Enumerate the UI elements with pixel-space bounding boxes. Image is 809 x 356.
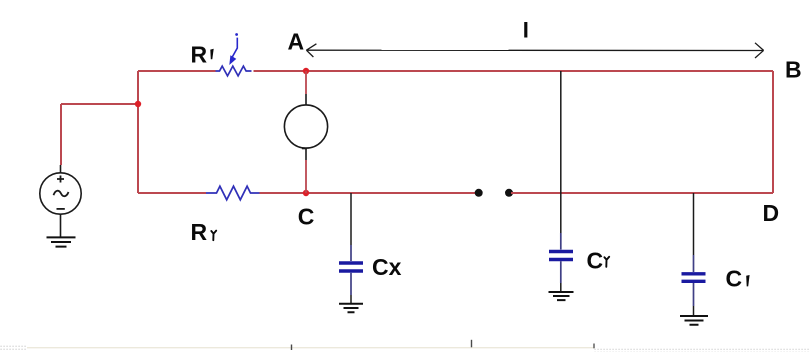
svg-text:A: A (288, 28, 305, 54)
wire bottom middle segment (red) (260, 192, 477, 194)
svg-text:D: D (763, 200, 780, 226)
svg-text:Cx: Cx (372, 254, 402, 280)
capacitor Cx (339, 263, 363, 271)
wire galvanometer bottom (black then red) (302, 147, 307, 149)
wire C1 lower stem (blue then black) (693, 283, 695, 306)
bottom edge speckle patch left (0, 344, 27, 350)
wire galvanometer top (red then black) (305, 71, 307, 94)
junction dot (slide contact left) (475, 189, 483, 197)
wire top right segment (red) (254, 70, 774, 72)
svg-text:C: C (587, 247, 604, 273)
svg-text:B: B (785, 57, 802, 83)
wire Cx upper stem (blue) (350, 245, 352, 261)
wire source feed horizontal (red) (61, 103, 138, 105)
node C dot (303, 190, 309, 196)
bottom edge tick 3 (593, 344, 595, 349)
svg-text:R: R (191, 42, 208, 68)
bottom edge tick 2 (471, 340, 473, 348)
resistor R2 (blue zigzag) (206, 186, 260, 200)
ground (C2) (549, 292, 574, 300)
resistor R1 (variable, blue zigzag) (216, 66, 252, 76)
wire C2 branch vertical (black, from top wire through bottom wire) (560, 71, 562, 233)
wire Cx branch (black) (350, 193, 352, 245)
R1 wiper arrow (blue j-arrow) (229, 33, 238, 65)
bottom edge ruler line (20, 347, 594, 349)
wire bottom right segment (red) (511, 192, 773, 194)
ground (source) (47, 237, 76, 246)
wire C2 upper stem (blue) (560, 233, 562, 250)
ground (Cx) (339, 304, 363, 313)
wire bottom left segment (red) (138, 192, 206, 194)
dimension arrow line l (306, 43, 763, 58)
wire right side vertical (red) (772, 71, 774, 193)
svg-text:I: I (523, 17, 529, 42)
wire C1 upper stem (blue) (693, 255, 695, 272)
capacitor C1 (682, 274, 706, 282)
node A dot (303, 68, 309, 74)
node junction dot at feed (135, 101, 141, 107)
wire C2 lower stem (blue then black) (560, 261, 562, 283)
junction dot (slide contact right) (505, 189, 513, 197)
ground (C1) (680, 316, 708, 325)
wire top left segment (red) (138, 70, 216, 72)
svg-text:C: C (298, 203, 315, 229)
bottom edge speckle band right (594, 349, 809, 352)
wire source feed vertical (red) (60, 104, 62, 165)
capacitor C2 (549, 252, 573, 260)
AC source V1 (60, 165, 62, 173)
svg-text:R: R (191, 219, 208, 245)
wire left side vertical (red) (137, 71, 139, 193)
galvanometer G (detector circle) (284, 105, 327, 148)
wire C1 branch (black) (693, 193, 695, 255)
wire source to ground (60, 214, 62, 237)
bottom edge tick 1 (291, 345, 293, 351)
wire Cx lower stem (blue then black) (350, 273, 352, 295)
svg-text:C: C (726, 266, 743, 292)
